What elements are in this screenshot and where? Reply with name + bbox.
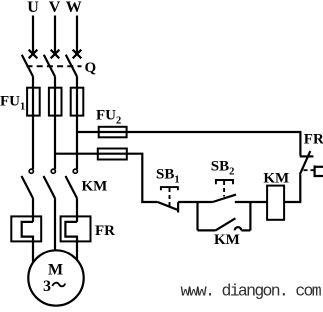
motor M circle xyxy=(28,250,83,305)
wire FR contact to coil xyxy=(284,175,300,202)
FR contact actuator link (dashed) xyxy=(304,169,314,171)
wire KM aux branch bottom left xyxy=(198,229,216,231)
terminal X mark U xyxy=(29,50,38,59)
fuse FU2 lower xyxy=(98,149,127,160)
svg-text:U: U xyxy=(27,0,39,16)
thermal relay FR heater U: box xyxy=(11,216,41,241)
svg-text:www. diangon. com: www. diangon. com xyxy=(181,281,322,300)
contactor KM main contact V: blade xyxy=(44,176,56,198)
contactor KM main contact U: blade xyxy=(22,176,34,198)
fuse FU1 pole W xyxy=(71,88,84,116)
contactor KM main contact V: terminal circle xyxy=(51,169,55,173)
wire control top rail from W xyxy=(77,132,300,156)
fuse FU1 pole U xyxy=(27,88,40,116)
wire V blade to fuse xyxy=(54,77,56,88)
coil KM rectangle xyxy=(267,186,284,220)
button SB1 fixed contact tick xyxy=(177,202,179,212)
button SB2 plunger (dashed) xyxy=(223,181,225,197)
switch Q pole W blade xyxy=(66,55,77,77)
terminal X mark V xyxy=(51,50,60,59)
svg-text:3: 3 xyxy=(43,278,51,295)
svg-text:W: W xyxy=(66,0,82,16)
wire KM aux branch right rise xyxy=(249,202,251,230)
switch Q pole V blade xyxy=(44,55,55,77)
contact KM aux NO blade xyxy=(216,218,236,230)
wire V supply drop xyxy=(54,16,56,56)
svg-text:V: V xyxy=(49,0,61,16)
contact KM aux hook (semicircle) xyxy=(235,227,242,230)
button SB1 NC blade xyxy=(158,202,178,210)
wire W fuse to KM contact (junction at control tap) xyxy=(76,116,78,170)
wire SB2 to right node xyxy=(235,201,267,203)
wire W KM contact to FR heater xyxy=(76,198,78,222)
wire W supply drop xyxy=(76,16,78,56)
svg-text:FR: FR xyxy=(304,131,323,147)
svg-text:KM: KM xyxy=(214,232,240,248)
wire U supply drop xyxy=(32,16,34,56)
wire KM aux branch bottom right xyxy=(241,229,250,231)
FR contact blade xyxy=(300,151,311,175)
svg-text:KM: KM xyxy=(263,171,289,187)
terminal X mark W xyxy=(73,50,82,59)
wire U fuse to KM contact xyxy=(32,116,34,170)
svg-text:M: M xyxy=(48,262,63,279)
contactor KM main contact U: terminal circle xyxy=(29,169,33,173)
button SB1 plunger (dashed) xyxy=(169,188,171,206)
button SB2 cap xyxy=(216,180,233,184)
button SB2 NO blade xyxy=(213,195,236,202)
wire V fuse to KM contact (junction at control tap) xyxy=(54,116,56,170)
thermal relay FR heater W: box xyxy=(61,216,91,241)
FR contact fixed bar xyxy=(300,155,314,157)
button SB1 cap xyxy=(161,187,178,190)
wire V KM contact to motor xyxy=(54,198,56,252)
fuse FU1 pole V xyxy=(49,88,62,116)
svg-text:FR: FR xyxy=(95,223,115,239)
contactor KM main contact W: terminal circle xyxy=(73,169,77,173)
wire U KM contact to FR heater xyxy=(32,198,34,222)
thermal relay FR heater U: wire jog xyxy=(22,222,33,263)
contactor KM main contact W: blade xyxy=(66,176,78,198)
wire SB1 to SB2 xyxy=(178,201,213,203)
wire control second rail from V xyxy=(55,154,158,202)
FR contact actuator bracket xyxy=(315,165,323,177)
wire U blade to fuse xyxy=(32,77,34,88)
fuse FU2 upper xyxy=(99,127,127,138)
thermal relay FR heater W: wire jog xyxy=(65,222,77,263)
switch Q linkage (dashed) xyxy=(27,65,82,67)
wire KM aux branch left drop xyxy=(196,202,198,230)
wire W blade to fuse xyxy=(76,77,78,88)
svg-text:Q: Q xyxy=(85,60,97,76)
svg-text:KM: KM xyxy=(82,179,108,195)
switch Q pole U blade xyxy=(22,55,33,77)
